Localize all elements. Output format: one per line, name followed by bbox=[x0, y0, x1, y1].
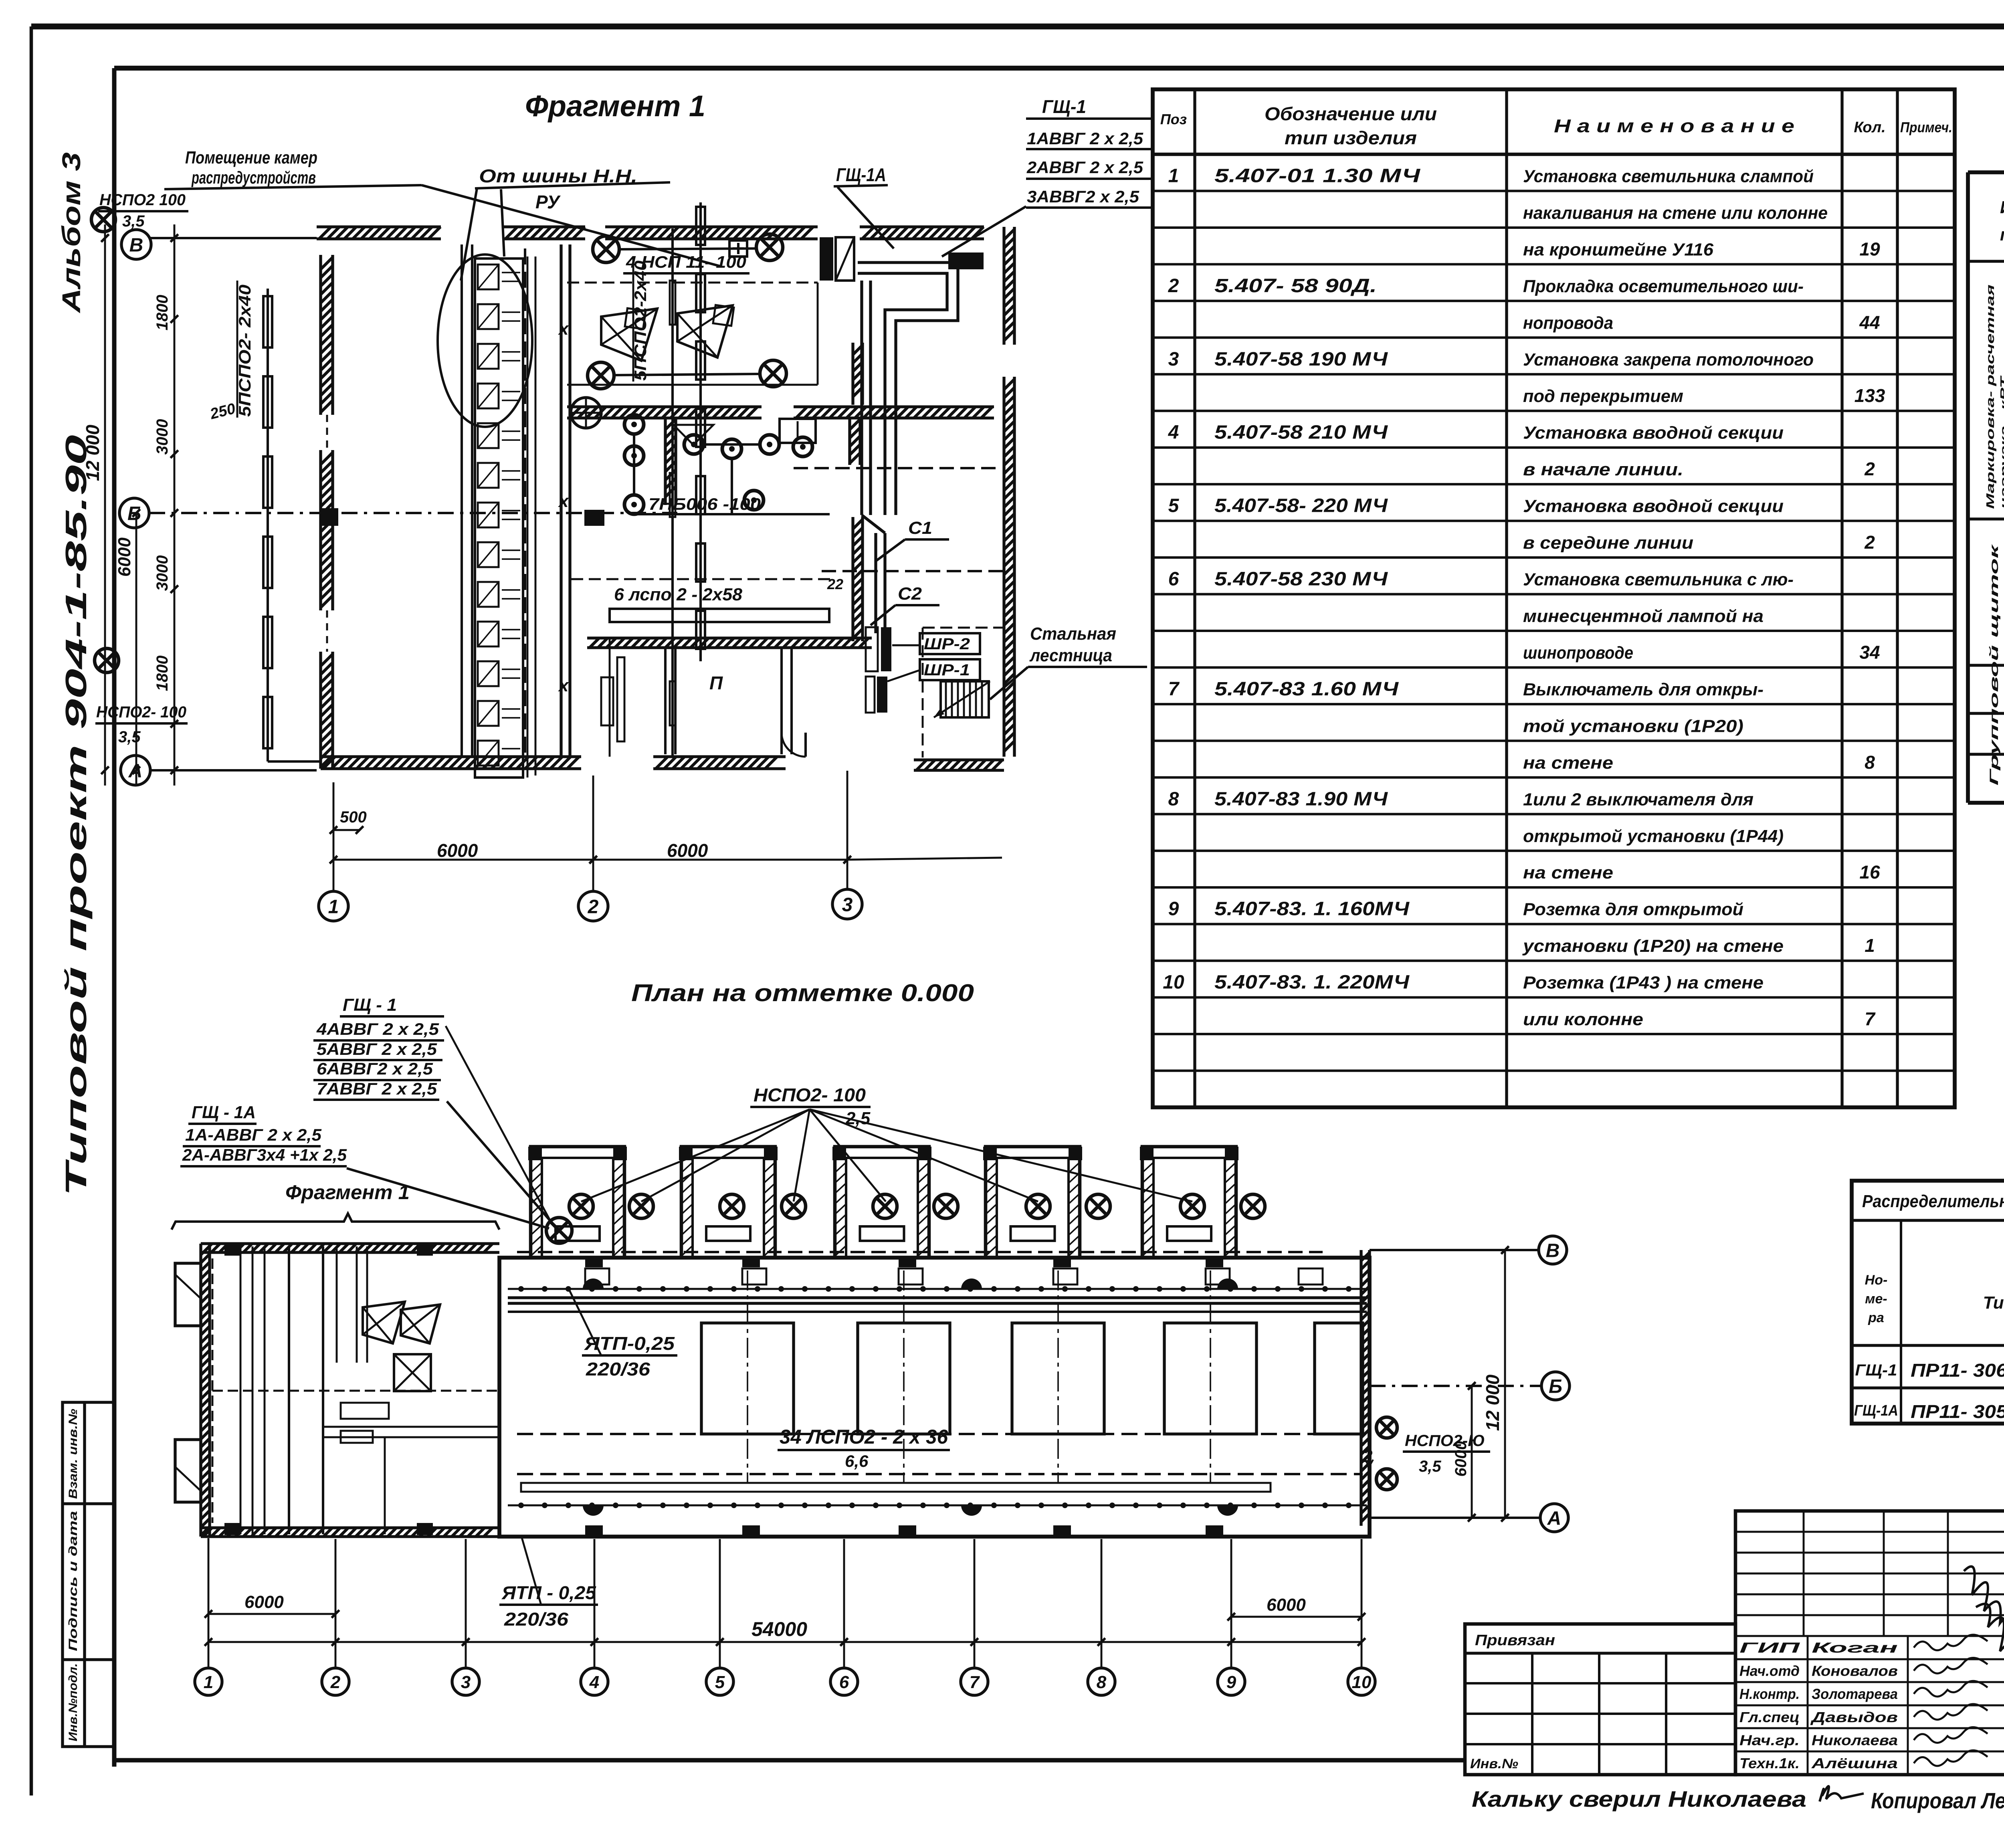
svg-text:Алёшина: Алёшина bbox=[1811, 1755, 1898, 1771]
svg-text:в начале линии.: в начале линии. bbox=[1523, 460, 1683, 479]
spec table row lines bbox=[1153, 190, 1955, 192]
svg-text:Источник: Источник bbox=[2000, 198, 2004, 217]
axis A right bbox=[1370, 1517, 1540, 1519]
svg-text:НСПО2-Ю: НСПО2-Ю bbox=[1405, 1432, 1485, 1450]
dimension 54000 bottom bbox=[208, 1641, 1362, 1643]
page outer border left bbox=[30, 26, 33, 1795]
dimension 6000 right rotated bbox=[1471, 1386, 1473, 1518]
svg-text:х: х bbox=[558, 676, 569, 695]
svg-text:Распределительный пункт: Распределительный пункт bbox=[1862, 1192, 2004, 1211]
svg-text:1: 1 bbox=[1865, 935, 1875, 956]
svg-text:ГЩ-1: ГЩ-1 bbox=[1042, 96, 1086, 117]
svg-text:Н.контр.: Н.контр. bbox=[1739, 1686, 1800, 1702]
hatched band bottom right fragment bbox=[914, 760, 1004, 770]
svg-text:1800: 1800 bbox=[154, 295, 171, 331]
hall crane rails double lines bbox=[508, 1296, 1367, 1299]
svg-text:Техн.1к.: Техн.1к. bbox=[1739, 1755, 1800, 1771]
svg-text:Розетка (1Р43 ) на стене: Розетка (1Р43 ) на стене bbox=[1523, 973, 1764, 993]
svg-text:Но-: Но- bbox=[1865, 1272, 1888, 1288]
axis row V left bbox=[121, 230, 151, 259]
svg-text:х: х bbox=[558, 319, 569, 339]
svg-text:5.407-83 1.90 МЧ: 5.407-83 1.90 МЧ bbox=[1214, 788, 1388, 810]
center stem conduit vertical bbox=[671, 228, 674, 757]
svg-text:3: 3 bbox=[461, 1672, 471, 1692]
svg-text:под перекрытием: под перекрытием bbox=[1523, 386, 1683, 406]
svg-text:Привязан: Привязан bbox=[1475, 1632, 1555, 1649]
lamp at leaders convergence bbox=[546, 1218, 572, 1243]
svg-text:питания: питания bbox=[2000, 225, 2004, 244]
wall right fragment full height bbox=[1004, 227, 1014, 345]
svg-text:8: 8 bbox=[1865, 752, 1875, 773]
svg-text:Кальку сверил Николаева: Кальку сверил Николаева bbox=[1472, 1786, 1806, 1812]
hall compressor foundations bbox=[701, 1323, 794, 1434]
privyazan grid bbox=[1465, 1682, 1735, 1684]
annexe crossed box bbox=[394, 1354, 431, 1391]
dimension 12000 vertical bbox=[104, 224, 106, 786]
column circles bottom plan bbox=[195, 1668, 222, 1695]
svg-text:2: 2 bbox=[1864, 532, 1875, 553]
power table outer box bbox=[1966, 172, 1970, 803]
hall wall pillars hatched bbox=[585, 1525, 603, 1537]
hall small top rects row bbox=[585, 1268, 609, 1285]
svg-text:6 лспо 2 - 2х58: 6 лспо 2 - 2х58 bbox=[614, 585, 743, 604]
svg-text:7: 7 bbox=[970, 1672, 980, 1692]
dashed line above lighting row bbox=[571, 578, 836, 580]
column axes verticals bottom plan bbox=[208, 1538, 210, 1667]
svg-text:Фрагмент 1: Фрагмент 1 bbox=[285, 1181, 410, 1204]
wall stubs right side bbox=[853, 343, 863, 405]
door arc operator room bbox=[782, 733, 806, 757]
svg-text:3,5: 3,5 bbox=[1419, 1458, 1441, 1475]
power table row tip bbox=[1968, 712, 2004, 715]
distribution table verticals bbox=[1900, 1220, 1902, 1424]
svg-text:Коновалов: Коновалов bbox=[1812, 1662, 1898, 1679]
svg-text:лестница: лестница bbox=[1029, 646, 1112, 665]
dimension 6000 vertical bbox=[135, 513, 137, 786]
svg-text:220/36: 220/36 bbox=[504, 1609, 569, 1630]
axis row B left bbox=[119, 498, 149, 528]
names table verticals bbox=[1807, 1636, 1809, 1775]
spec table vertical lines bbox=[1193, 89, 1196, 1107]
shinoprovod feed black box bbox=[948, 252, 984, 269]
wall bottom fragment 1 bbox=[321, 757, 581, 769]
names table upper empty rows bbox=[1735, 1531, 2004, 1533]
busbar vertical lines RU bbox=[527, 256, 529, 778]
svg-text:8: 8 bbox=[1168, 788, 1179, 810]
distribution table header row1 line bbox=[1852, 1219, 2004, 1222]
axis row A left bbox=[121, 755, 150, 785]
svg-text:Нач.отд: Нач.отд bbox=[1739, 1662, 1800, 1679]
names table rows bbox=[1735, 1658, 2004, 1660]
svg-text:6: 6 bbox=[1168, 569, 1179, 590]
fluorescent fixture long rect bbox=[610, 609, 829, 622]
hall dashed lighting line lower bbox=[517, 1473, 1363, 1475]
svg-text:1: 1 bbox=[1168, 165, 1179, 186]
svg-text:Установка вводной секции: Установка вводной секции bbox=[1523, 497, 1784, 516]
svg-text:С1: С1 bbox=[908, 518, 932, 538]
power table istochnik pitaniya cell bbox=[1968, 260, 2004, 263]
dimension 12000 right rotated bbox=[1504, 1250, 1506, 1518]
svg-text:НСПО2- 100: НСПО2- 100 bbox=[754, 1085, 866, 1105]
hall dashed lighting line mid bbox=[517, 1433, 1363, 1435]
svg-text:2: 2 bbox=[330, 1672, 341, 1692]
svg-text:2: 2 bbox=[588, 896, 599, 917]
svg-text:Альбом 3: Альбом 3 bbox=[57, 152, 86, 314]
svg-text:Стальная: Стальная bbox=[1030, 624, 1116, 644]
plus box symbol bbox=[729, 240, 747, 256]
svg-text:3: 3 bbox=[842, 894, 853, 915]
annexe dashed wiring bbox=[212, 1258, 214, 1523]
svg-text:12 000: 12 000 bbox=[82, 424, 103, 481]
svg-text:План на отметке 0.000: План на отметке 0.000 bbox=[631, 980, 974, 1006]
svg-text:54000: 54000 bbox=[751, 1618, 807, 1640]
svg-text:6000: 6000 bbox=[1267, 1595, 1306, 1615]
svg-text:Взам. инв.№: Взам. инв.№ bbox=[67, 1409, 80, 1499]
svg-text:Коган: Коган bbox=[1812, 1640, 1898, 1656]
door gaps dashed on left wall bbox=[326, 415, 328, 450]
lamp row top 4NSP11-100 bbox=[593, 236, 619, 263]
svg-text:3,5: 3,5 bbox=[118, 728, 141, 746]
svg-text:5: 5 bbox=[715, 1672, 725, 1692]
svg-text:П: П bbox=[709, 673, 723, 693]
svg-text:5.407-58 230 МЧ: 5.407-58 230 МЧ bbox=[1214, 569, 1388, 590]
conduit loop top right bbox=[858, 263, 958, 515]
ShR-1 label box bbox=[920, 659, 980, 680]
spec table header separator bbox=[1153, 153, 1955, 156]
svg-text:ГЩ-1А: ГЩ-1А bbox=[1854, 1402, 1898, 1419]
spec table outer frame bbox=[1153, 89, 1955, 1107]
dimension 6000 bottom left bbox=[208, 1613, 335, 1615]
ShR black cabinets bbox=[881, 627, 891, 671]
svg-text:ГЩ - 1А: ГЩ - 1А bbox=[192, 1103, 256, 1122]
svg-text:6000: 6000 bbox=[667, 840, 708, 861]
svg-text:5.407-58 210 МЧ: 5.407-58 210 МЧ bbox=[1214, 422, 1388, 443]
projector symbol 2 bbox=[677, 305, 733, 357]
leader GSCH-1A bbox=[838, 187, 894, 248]
svg-text:3,5: 3,5 bbox=[122, 212, 145, 230]
annexe projector symbols bbox=[363, 1302, 405, 1343]
svg-text:минесцентной лампой на: минесцентной лампой на bbox=[1523, 606, 1764, 626]
svg-text:Инв.№подл.: Инв.№подл. bbox=[67, 1663, 80, 1741]
svg-text:500: 500 bbox=[340, 808, 367, 826]
svg-text:9: 9 bbox=[1168, 899, 1179, 920]
svg-text:2А-АВВГ3х4 +1х 2,5: 2А-АВВГ3х4 +1х 2,5 bbox=[182, 1145, 347, 1164]
svg-text:Н а и м е н о в а н и е: Н а и м е н о в а н и е bbox=[1554, 115, 1794, 136]
annexe outer wall top bbox=[201, 1244, 499, 1252]
svg-text:ЯТП - 0,25: ЯТП - 0,25 bbox=[501, 1582, 597, 1603]
dashed room boundary upper middle bbox=[567, 282, 818, 284]
annexe outer wall bottom bbox=[201, 1528, 499, 1537]
right end wall details bbox=[1361, 1250, 1370, 1526]
conduit risers right side bbox=[860, 281, 863, 515]
svg-text:ГЩ-1А: ГЩ-1А bbox=[836, 164, 886, 185]
svg-text:ЯТП-0,25: ЯТП-0,25 bbox=[584, 1333, 675, 1354]
leader from shiny label bbox=[461, 188, 477, 281]
svg-text:10: 10 bbox=[1163, 972, 1184, 993]
svg-text:Выключатель для откры-: Выключатель для откры- bbox=[1523, 680, 1764, 699]
svg-text:12 000: 12 000 bbox=[1482, 1374, 1503, 1431]
svg-text:Давыдов: Давыдов bbox=[1810, 1709, 1898, 1725]
svg-text:5АВВГ 2 х 2,5: 5АВВГ 2 х 2,5 bbox=[317, 1040, 437, 1058]
lamps mid row bbox=[588, 362, 614, 389]
svg-text:нопровода: нопровода bbox=[1523, 313, 1613, 333]
svg-text:Обозначение или: Обозначение или bbox=[1265, 103, 1437, 124]
fragment bracket bbox=[172, 1214, 499, 1230]
svg-text:на стене: на стене bbox=[1523, 863, 1613, 883]
hall top bays bbox=[531, 1147, 624, 1258]
ShR-2 label box bbox=[920, 633, 980, 654]
GSCH-1A panel black box bbox=[820, 237, 833, 281]
inner drawing frame left bbox=[112, 68, 117, 1767]
svg-text:шинопроводе: шинопроводе bbox=[1523, 643, 1633, 662]
svg-text:5: 5 bbox=[1168, 495, 1180, 517]
svg-text:Установка светильника слампой: Установка светильника слампой bbox=[1523, 166, 1814, 186]
names table frame bbox=[1735, 1511, 2004, 1775]
page outer border top bbox=[31, 24, 2004, 30]
svg-text:Помещение камер: Помещение камер bbox=[185, 148, 317, 168]
feeder line with busway fixtures RU bbox=[699, 202, 702, 661]
wall top band fragment 1 bbox=[317, 227, 441, 239]
svg-text:3000: 3000 bbox=[154, 419, 171, 455]
svg-text:Нач.гр.: Нач.гр. bbox=[1739, 1732, 1800, 1749]
svg-text:С2: С2 bbox=[898, 584, 922, 604]
title block privyazan box bbox=[1465, 1624, 1735, 1775]
distribution table header bottom line bbox=[1852, 1344, 2004, 1347]
svg-text:22: 22 bbox=[827, 576, 843, 592]
svg-text:Инв.№: Инв.№ bbox=[1470, 1756, 1518, 1771]
hall black semicircles bottom bbox=[583, 1505, 604, 1516]
junction circle bbox=[571, 398, 601, 428]
annexe left stair bumps bbox=[175, 1263, 201, 1326]
svg-text:5.407- 58 90Д.: 5.407- 58 90Д. bbox=[1214, 275, 1377, 297]
svg-text:в середине линии: в середине линии bbox=[1523, 533, 1693, 553]
axis B right bbox=[1370, 1385, 1541, 1387]
svg-text:Кол.: Кол. bbox=[1854, 119, 1885, 136]
annexe inner partitions bbox=[288, 1246, 290, 1534]
svg-text:5.407-83. 1. 160МЧ: 5.407-83. 1. 160МЧ bbox=[1214, 899, 1410, 920]
signature scribbles bbox=[1914, 1635, 1988, 1650]
hall center dash-dot lines vertical bbox=[747, 1270, 748, 1483]
svg-text:Б: Б bbox=[1549, 1376, 1562, 1397]
svg-text:В: В bbox=[1546, 1240, 1560, 1261]
svg-text:на стене: на стене bbox=[1523, 753, 1613, 773]
dimension chain 1800-3000-3000-1800 bbox=[174, 224, 176, 786]
dimension 6000 bottom right bbox=[1231, 1616, 1362, 1618]
wall below operator room top bbox=[587, 638, 872, 648]
wall left fragment 1 bbox=[321, 255, 333, 415]
svg-text:6,6: 6,6 bbox=[845, 1452, 869, 1470]
power table row no po planu bbox=[1968, 664, 2004, 666]
svg-text:16: 16 bbox=[1859, 862, 1880, 883]
svg-text:Фрагмент 1: Фрагмент 1 bbox=[525, 89, 705, 123]
hall black semicircles top bbox=[583, 1278, 604, 1289]
svg-text:НСПО2 100: НСПО2 100 bbox=[99, 191, 186, 209]
dimension 6000 fragment left bbox=[333, 859, 593, 861]
right side lamps and label bbox=[1376, 1417, 1397, 1438]
svg-text:2: 2 bbox=[1864, 458, 1875, 479]
svg-text:открытой установки (1Р44): открытой установки (1Р44) bbox=[1523, 826, 1784, 846]
svg-text:или колонне: или колонне bbox=[1523, 1010, 1643, 1029]
dimension 6000 fragment right bbox=[593, 859, 847, 861]
wall RU to hall double bbox=[560, 244, 562, 757]
svg-text:3: 3 bbox=[1168, 349, 1179, 370]
dimension 500 bbox=[333, 829, 360, 831]
hatched pillar on axis B bbox=[584, 510, 604, 526]
annexe small rects bbox=[341, 1403, 389, 1419]
svg-text:ШР-1: ШР-1 bbox=[924, 661, 970, 679]
axis column 2 fragment bbox=[592, 776, 594, 891]
svg-text:6000: 6000 bbox=[1452, 1441, 1470, 1477]
svg-text:7: 7 bbox=[1865, 1008, 1876, 1029]
svg-text:ШР-2: ШР-2 bbox=[924, 635, 970, 653]
svg-text:ПР11- 3068 - 21УЗ: ПР11- 3068 - 21УЗ bbox=[1911, 1360, 2004, 1381]
svg-text:Николаева: Николаева bbox=[1812, 1732, 1898, 1749]
svg-text:1800: 1800 bbox=[154, 656, 171, 691]
sidebar stamp boxes bbox=[63, 1402, 114, 1747]
svg-text:8: 8 bbox=[1097, 1672, 1107, 1692]
svg-text:распредустройств: распредустройств bbox=[191, 168, 316, 188]
svg-text:9: 9 bbox=[1226, 1672, 1236, 1692]
svg-text:Маркировка- расчетная: Маркировка- расчетная bbox=[1984, 285, 1996, 509]
svg-text:Установка светильника с лю-: Установка светильника с лю- bbox=[1523, 570, 1794, 590]
hall outer walls bbox=[499, 1258, 1370, 1537]
wall between RU room and hall bbox=[461, 244, 463, 757]
svg-text:34 ЛСПО2 - 2 х 36: 34 ЛСПО2 - 2 х 36 bbox=[780, 1426, 948, 1448]
small partition right bbox=[850, 417, 860, 465]
stairs hatch bbox=[941, 681, 989, 717]
svg-text:Гл.спец: Гл.спец bbox=[1739, 1709, 1800, 1725]
svg-text:ГЩ-1: ГЩ-1 bbox=[1855, 1361, 1897, 1379]
svg-text:2: 2 bbox=[1168, 275, 1179, 297]
ellipse overlay on cells bbox=[438, 254, 532, 427]
axis column 3 fragment bbox=[846, 771, 848, 889]
svg-text:накаливания на стене или колон: накаливания на стене или колонне bbox=[1523, 203, 1828, 223]
svg-text:Розетка для открытой: Розетка для открытой bbox=[1523, 900, 1743, 919]
svg-text:на кронштейне У116: на кронштейне У116 bbox=[1523, 240, 1714, 259]
hall shinoprovod dotted line bottom bbox=[508, 1505, 1367, 1507]
lighting line fixtures 2x40 along left wall outside bbox=[267, 289, 269, 761]
svg-text:ГИП: ГИП bbox=[1739, 1640, 1800, 1656]
operator room partitions bbox=[664, 648, 667, 754]
svg-text:Копировал Левушкина: Копировал Левушкина bbox=[1871, 1788, 2004, 1813]
svg-text:133: 133 bbox=[1855, 385, 1885, 406]
svg-text:44: 44 bbox=[1859, 312, 1880, 333]
svg-text:6: 6 bbox=[839, 1672, 849, 1692]
svg-text:Установка вводной секции: Установка вводной секции bbox=[1523, 423, 1784, 443]
leader fan to bay lamps bbox=[581, 1109, 810, 1202]
distribution table outer bbox=[1852, 1181, 2004, 1424]
svg-text:5.407-58 190 МЧ: 5.407-58 190 МЧ bbox=[1214, 349, 1388, 370]
svg-text:установки (1Р20) на стене: установки (1Р20) на стене bbox=[1522, 936, 1784, 956]
dashed wiring along bays bbox=[517, 1251, 1323, 1253]
svg-text:1: 1 bbox=[328, 896, 339, 917]
svg-text:5.407-58- 220 МЧ: 5.407-58- 220 МЧ bbox=[1214, 495, 1388, 517]
leader lines from GSCH labels to building bbox=[447, 1101, 552, 1223]
inner drawing frame top bbox=[114, 66, 2004, 71]
svg-text:тип изделия: тип изделия bbox=[1285, 127, 1417, 148]
svg-text:В: В bbox=[129, 234, 143, 256]
svg-text:1: 1 bbox=[204, 1672, 213, 1692]
svg-text:нагрузка , кВТ: нагрузка , кВТ bbox=[1998, 375, 2004, 509]
svg-text:6000: 6000 bbox=[115, 537, 134, 577]
svg-text:3000: 3000 bbox=[154, 555, 171, 591]
svg-text:4АВВГ 2 х 2,5: 4АВВГ 2 х 2,5 bbox=[316, 1020, 439, 1038]
svg-text:5.407-01 1.30 МЧ: 5.407-01 1.30 МЧ bbox=[1214, 165, 1420, 186]
svg-text:1или 2 выключателя для: 1или 2 выключателя для bbox=[1523, 790, 1753, 809]
socket group 7NB006-100 bbox=[624, 415, 644, 434]
svg-text:220/36: 220/36 bbox=[586, 1359, 650, 1379]
bay lamps row bbox=[569, 1194, 593, 1218]
svg-text:ме-: ме- bbox=[1865, 1291, 1887, 1307]
power table row kvt bbox=[1968, 753, 2004, 755]
svg-text:7: 7 bbox=[1168, 679, 1180, 700]
leader from room label to plan bbox=[422, 185, 721, 267]
svg-text:Поз: Поз bbox=[1160, 111, 1187, 127]
switchgear cells column RU room bbox=[475, 259, 523, 778]
svg-text:Прокладка осветительного ши-: Прокладка осветительного ши- bbox=[1523, 277, 1804, 296]
dashed line corridor bbox=[794, 467, 1002, 469]
svg-text:НСПО2- 100: НСПО2- 100 bbox=[96, 703, 186, 721]
svg-text:Примеч.: Примеч. bbox=[1900, 119, 1952, 135]
wall mid horizontal bbox=[567, 407, 762, 418]
svg-text:6000: 6000 bbox=[244, 1592, 284, 1612]
svg-text:6000: 6000 bbox=[437, 840, 478, 861]
dashed line group S1 bbox=[822, 570, 1004, 572]
svg-text:ПР11- 3050 - 21УЗ: ПР11- 3050 - 21УЗ bbox=[1911, 1401, 2004, 1422]
svg-text:4 НСП 11- 100: 4 НСП 11- 100 bbox=[626, 252, 746, 271]
hall shinoprovod dotted line top bbox=[508, 1288, 1367, 1290]
svg-text:Подпись и дата: Подпись и дата bbox=[67, 1511, 80, 1651]
dashed boundary near stairs bbox=[923, 627, 1006, 629]
axis V right bbox=[1370, 1249, 1537, 1251]
svg-text:Золотарева: Золотарева bbox=[1812, 1686, 1898, 1702]
distribution table data row line bbox=[1852, 1386, 2004, 1389]
svg-text:3АВВГ2 х 2,5: 3АВВГ2 х 2,5 bbox=[1027, 187, 1139, 206]
bay fixtures small rects bbox=[556, 1226, 600, 1241]
projector symbol 1 bbox=[601, 309, 657, 361]
svg-text:1А-АВВГ 2 х 2,5: 1А-АВВГ 2 х 2,5 bbox=[185, 1125, 322, 1144]
svg-text:6АВВГ2 х 2,5: 6АВВГ2 х 2,5 bbox=[317, 1059, 433, 1078]
hall long thin rect lower bbox=[521, 1483, 1271, 1492]
svg-text:34: 34 bbox=[1859, 642, 1880, 662]
annexe outer wall left bbox=[201, 1244, 210, 1537]
annexe inner partition walls bbox=[356, 1246, 358, 1363]
small equipment rects operator room bbox=[601, 677, 613, 725]
svg-text:2АВВГ 2 х 2,5: 2АВВГ 2 х 2,5 bbox=[1026, 158, 1143, 177]
annexe hatch pillars bbox=[224, 1244, 240, 1256]
svg-text:5.407-83. 1. 220МЧ: 5.407-83. 1. 220МЧ bbox=[1214, 972, 1410, 993]
svg-text:Тип: Тип bbox=[1983, 1293, 2004, 1313]
svg-text:Типовой проект 904-1-85.: Типовой проект 904-1-85.90 bbox=[59, 435, 93, 1196]
small wall stub middle bbox=[665, 417, 676, 505]
svg-text:А: А bbox=[1547, 1508, 1562, 1529]
svg-text:4: 4 bbox=[1168, 422, 1179, 443]
svg-text:х: х bbox=[558, 491, 569, 511]
svg-text:Установка закрепа потолочного: Установка закрепа потолочного bbox=[1523, 350, 1814, 370]
svg-text:ГЩ - 1: ГЩ - 1 bbox=[343, 995, 397, 1015]
svg-text:той установки (1Р20): той установки (1Р20) bbox=[1523, 716, 1743, 736]
svg-text:7АВВГ 2 х 2,5: 7АВВГ 2 х 2,5 bbox=[317, 1079, 437, 1098]
leader GSCH-1 cables to panel bbox=[942, 206, 1026, 256]
svg-text:ра: ра bbox=[1868, 1310, 1884, 1325]
svg-text:19: 19 bbox=[1859, 238, 1880, 259]
svg-text:10: 10 bbox=[1352, 1672, 1372, 1692]
inner drawing frame bottom bbox=[114, 1758, 1465, 1763]
svg-text:4: 4 bbox=[589, 1672, 599, 1692]
svg-text:РУ: РУ bbox=[535, 192, 561, 212]
dashed boundary vertical RU bbox=[524, 248, 526, 757]
svg-text:5.407-83 1.60 МЧ: 5.407-83 1.60 МЧ bbox=[1214, 679, 1399, 700]
